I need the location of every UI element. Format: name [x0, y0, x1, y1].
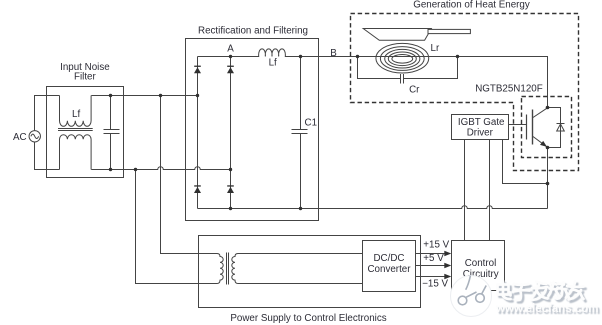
svg-text:B: B — [330, 48, 337, 59]
svg-text:Cr: Cr — [409, 85, 420, 96]
svg-text:+5 V: +5 V — [423, 253, 444, 264]
svg-text:IGBT Gate: IGBT Gate — [458, 117, 505, 128]
svg-text:C1: C1 — [305, 118, 318, 129]
svg-text:Lf: Lf — [269, 57, 277, 68]
svg-text:Lf: Lf — [72, 109, 80, 120]
svg-text:A: A — [227, 43, 234, 54]
svg-text:NGTB25N120F: NGTB25N120F — [475, 83, 543, 94]
svg-text:DC/DC: DC/DC — [373, 253, 404, 264]
svg-text:Lr: Lr — [431, 43, 440, 54]
svg-text:Filter: Filter — [74, 71, 97, 82]
svg-text:−15 V: −15 V — [422, 278, 448, 289]
svg-text:Control: Control — [465, 258, 497, 269]
svg-text:Driver: Driver — [467, 127, 494, 138]
svg-text:AC: AC — [13, 132, 27, 143]
svg-text:Power Supply to Control Electr: Power Supply to Control Electronics — [230, 313, 386, 324]
svg-text:+15 V: +15 V — [423, 239, 449, 250]
svg-text:Converter: Converter — [367, 264, 411, 275]
svg-text:Generation of Heat Energy: Generation of Heat Energy — [413, 0, 530, 10]
svg-text:Rectification and Filtering: Rectification and Filtering — [198, 26, 308, 37]
svg-text:www.elecfans.com: www.elecfans.com — [495, 303, 598, 315]
